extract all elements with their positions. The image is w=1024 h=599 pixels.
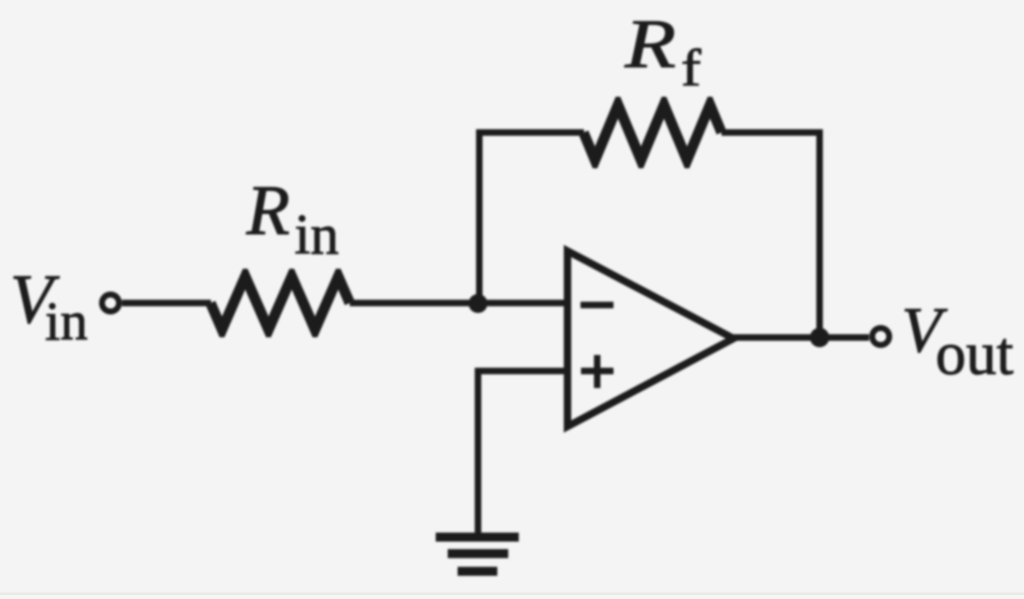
op-amp inverting pin minus sign: [581, 302, 614, 309]
wire node A up to feedback branch: [479, 133, 584, 307]
resistor Rin: [206, 269, 355, 337]
svg-text:f: f: [681, 40, 702, 97]
input terminal Vin (open circle): [102, 295, 119, 312]
svg-text:in: in: [295, 204, 339, 267]
op-amp non-inverting pin plus sign: [581, 355, 614, 388]
resistor Rf: [579, 97, 727, 168]
wire op-amp output to node B: [734, 334, 870, 341]
svg-text:R: R: [246, 172, 290, 250]
wire Rf to output node: [722, 133, 820, 338]
svg-text:in: in: [45, 291, 88, 352]
node A (junction dot, inverting input): [469, 294, 488, 313]
svg-text:out: out: [936, 321, 1014, 388]
wire input terminal to Rin: [122, 300, 211, 307]
op-amp (triangle): [568, 251, 734, 427]
ground: [436, 533, 519, 576]
node B (output junction dot): [810, 328, 829, 347]
wire non-inverting input: [478, 371, 568, 537]
output terminal Vout (open circle): [872, 328, 889, 345]
wire Rin to inverting input: [350, 300, 568, 307]
svg-text:R: R: [624, 6, 676, 83]
bottom hairline rule: [0, 593, 1024, 596]
